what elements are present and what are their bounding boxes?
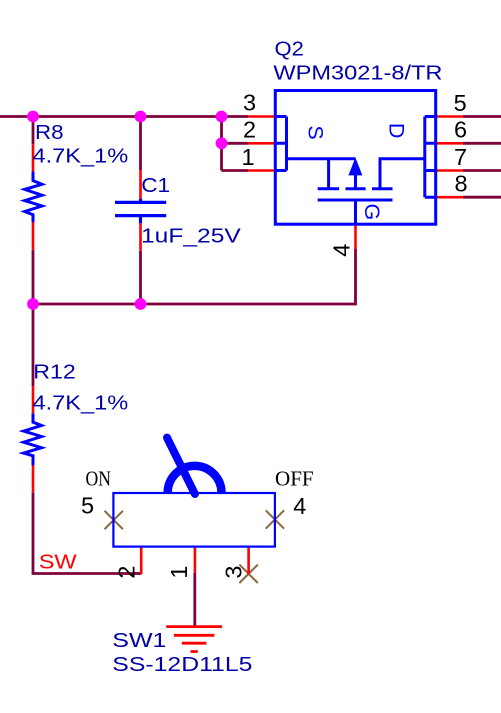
svg-text:D: D <box>384 123 408 139</box>
svg-text:1uF_25V: 1uF_25V <box>141 224 241 246</box>
svg-text:R12: R12 <box>33 360 76 383</box>
svg-text:WPM3021-8/TR: WPM3021-8/TR <box>273 61 442 84</box>
svg-text:SS-12D11L5: SS-12D11L5 <box>112 653 252 675</box>
svg-text:8: 8 <box>455 171 468 197</box>
svg-text:5: 5 <box>454 90 467 116</box>
svg-text:4: 4 <box>293 493 306 519</box>
svg-text:4: 4 <box>328 244 354 257</box>
svg-text:ON: ON <box>86 467 111 491</box>
svg-text:4.7K_1%: 4.7K_1% <box>33 144 129 167</box>
svg-text:2: 2 <box>114 566 140 579</box>
svg-text:SW: SW <box>39 550 77 573</box>
svg-text:Q2: Q2 <box>275 38 304 60</box>
svg-text:OFF: OFF <box>275 466 314 490</box>
svg-text:R8: R8 <box>35 122 64 144</box>
svg-text:1: 1 <box>242 144 255 170</box>
svg-text:1: 1 <box>166 566 192 579</box>
svg-text:7: 7 <box>454 144 467 170</box>
svg-text:3: 3 <box>243 89 256 115</box>
svg-text:5: 5 <box>81 493 94 519</box>
svg-text:C1: C1 <box>141 174 170 196</box>
svg-text:3: 3 <box>220 566 246 579</box>
svg-text:6: 6 <box>454 117 467 143</box>
svg-text:4.7K_1%: 4.7K_1% <box>33 391 129 414</box>
svg-text:G: G <box>360 204 384 221</box>
svg-text:SW1: SW1 <box>112 629 166 651</box>
svg-text:S: S <box>304 125 328 139</box>
svg-text:2: 2 <box>243 116 256 142</box>
